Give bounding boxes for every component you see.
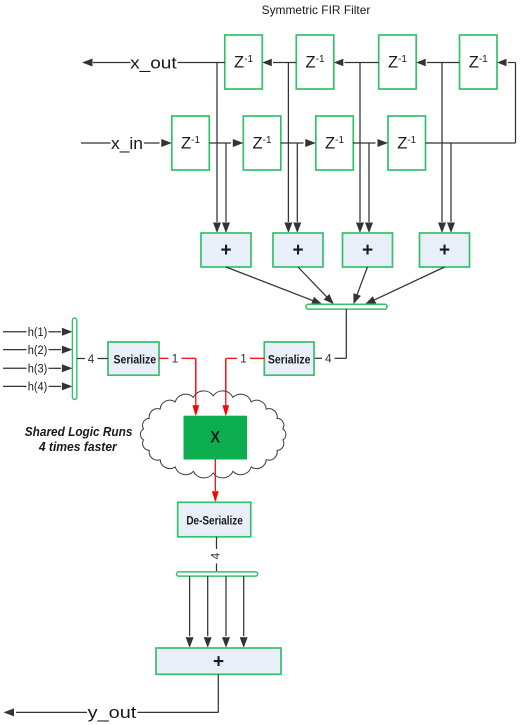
svg-text:h(2): h(2) — [28, 345, 48, 357]
svg-text:+: + — [292, 240, 303, 261]
svg-text:4 times faster: 4 times faster — [38, 440, 118, 454]
svg-text:x_out: x_out — [130, 53, 177, 72]
svg-text:h(1): h(1) — [28, 327, 48, 339]
svg-text:+: + — [220, 240, 231, 261]
svg-text:4: 4 — [209, 552, 223, 559]
svg-text:De-Serialize: De-Serialize — [186, 514, 243, 528]
svg-text:Serialize: Serialize — [114, 354, 157, 366]
svg-text:1: 1 — [240, 352, 247, 366]
svg-text:h(3): h(3) — [28, 364, 48, 376]
svg-text:Serialize: Serialize — [268, 354, 311, 366]
svg-text:h(4): h(4) — [28, 382, 48, 394]
svg-text:4: 4 — [325, 352, 332, 366]
svg-text:4: 4 — [88, 352, 95, 366]
svg-text:1: 1 — [172, 352, 179, 366]
svg-text:+: + — [439, 240, 450, 261]
svg-text:x_in: x_in — [111, 134, 143, 153]
svg-text:Symmetric FIR Filter: Symmetric FIR Filter — [262, 3, 371, 17]
svg-text:X: X — [210, 429, 220, 447]
svg-text:+: + — [362, 240, 373, 261]
svg-text:Shared Logic Runs: Shared Logic Runs — [25, 425, 133, 439]
svg-text:+: + — [213, 651, 224, 672]
svg-text:y_out: y_out — [88, 703, 137, 722]
